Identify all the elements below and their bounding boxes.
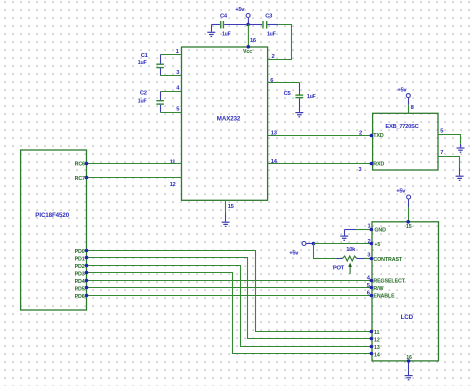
wire MAX232 pin 1 stub bbox=[161, 54, 182, 56]
svg-text:C1: C1 bbox=[141, 53, 149, 59]
node junction LCD pin 11 bbox=[370, 330, 374, 334]
wire PD2 to LCD pin 13 bbox=[87, 266, 372, 347]
node junction LCD pin 12 bbox=[370, 337, 374, 341]
svg-text:1uF: 1uF bbox=[307, 94, 316, 100]
capacitor C3 bbox=[249, 14, 279, 38]
svg-text:15: 15 bbox=[406, 224, 412, 230]
ground at EXB pin 5 bbox=[457, 144, 465, 152]
svg-text:LCD: LCD bbox=[401, 314, 414, 321]
node junction PD2 bbox=[85, 264, 89, 268]
wire POT to LCD pin 3 CONTRAST bbox=[364, 258, 371, 260]
wire EXB pin 5 to ground bbox=[438, 135, 461, 144]
wire PD3 to LCD pin 14 bbox=[87, 273, 372, 354]
svg-text:14: 14 bbox=[374, 353, 380, 359]
node junction LCD pin 4 bbox=[370, 279, 374, 283]
svg-text:ENABLE: ENABLE bbox=[373, 294, 395, 300]
wire MAX232 pin 6 stub bbox=[268, 82, 300, 84]
wire LCD pin 16 to ground bbox=[408, 361, 410, 375]
wire MAX232 pin 14 to EXB RXD bbox=[268, 163, 372, 165]
wire MAX232 pin 5 stub bbox=[161, 112, 182, 114]
svg-text:+5v: +5v bbox=[396, 189, 406, 195]
svg-text:11: 11 bbox=[374, 330, 380, 336]
capacitor C4 bbox=[220, 14, 248, 38]
IC U1 MAX232 box bbox=[182, 47, 268, 200]
svg-text:PD3: PD3 bbox=[75, 272, 85, 278]
svg-text:+5: +5 bbox=[374, 242, 380, 248]
wire MAX232 pin 3 stub bbox=[160, 75, 181, 77]
svg-text:C4: C4 bbox=[220, 14, 228, 20]
svg-text:R/W: R/W bbox=[373, 286, 383, 292]
node junction LCD pin 3 bbox=[370, 257, 374, 261]
node junction top rail bbox=[246, 23, 250, 27]
svg-text:12: 12 bbox=[374, 338, 380, 344]
svg-text:MAX232: MAX232 bbox=[217, 116, 241, 123]
svg-text:RC7: RC7 bbox=[75, 176, 85, 182]
svg-text:13: 13 bbox=[374, 345, 380, 351]
ground at C5 bbox=[295, 113, 303, 117]
wire top rail horizontal bbox=[212, 24, 220, 26]
wire +5V down to POT bbox=[314, 244, 337, 259]
wire RC6 to MAX232 pin 11 bbox=[87, 163, 182, 165]
svg-text:PD2: PD2 bbox=[75, 264, 85, 270]
node junction TXD bbox=[370, 134, 374, 138]
svg-text:12: 12 bbox=[170, 182, 176, 188]
svg-text:1uF: 1uF bbox=[138, 60, 147, 66]
resistor POT 10k bbox=[333, 247, 364, 271]
capacitor C2 bbox=[138, 90, 164, 112]
IC U2 PIC18F4520 box bbox=[21, 150, 87, 310]
node junction POT rail bbox=[312, 242, 316, 246]
POT wiper arrow bbox=[348, 263, 352, 275]
wire MAX232 pin 13 to EXB TXD bbox=[268, 135, 372, 137]
svg-text:PD0: PD0 bbox=[75, 249, 85, 255]
wire PD6 to LCD pin 6 bbox=[87, 295, 372, 297]
node junction LCD pin 15 bbox=[406, 220, 410, 224]
node junction LCD pin 2 bbox=[370, 242, 374, 246]
wire PD1 to LCD pin 12 bbox=[87, 258, 372, 339]
svg-text:C2: C2 bbox=[140, 90, 147, 96]
wire C3 to MAX232 pin 2 bbox=[268, 25, 292, 60]
power +5V at EXB pin 8 bbox=[397, 88, 410, 105]
capacitor C1 bbox=[138, 53, 164, 76]
node junction PD4 bbox=[85, 279, 89, 283]
node junction LCD pin 16 bbox=[407, 359, 411, 363]
node junction RC6 bbox=[85, 162, 89, 166]
wire PD0 to LCD pin 11 bbox=[87, 251, 372, 332]
svg-text:1uF: 1uF bbox=[267, 32, 276, 38]
svg-text:EXB_7720SC: EXB_7720SC bbox=[385, 124, 419, 130]
svg-text:CONTRAST: CONTRAST bbox=[373, 257, 402, 263]
node junction LCD pin 5 bbox=[370, 286, 374, 290]
node junction LCD pin 1 bbox=[370, 228, 374, 232]
svg-text:1uF: 1uF bbox=[138, 99, 147, 105]
wire +5V rail to MAX232 pin 16 bbox=[247, 25, 249, 48]
wire RC7 to MAX232 pin 12 bbox=[87, 177, 182, 179]
svg-text:C5: C5 bbox=[284, 91, 292, 97]
node junction LCD pin 14 bbox=[370, 352, 374, 356]
svg-text:PD1: PD1 bbox=[75, 257, 85, 263]
svg-text:POT: POT bbox=[333, 265, 345, 271]
node junction MAX232 pin 16 bbox=[247, 45, 251, 49]
svg-text:C3: C3 bbox=[265, 14, 273, 20]
svg-text:+5v: +5v bbox=[289, 250, 299, 256]
node junction LCD pin 13 bbox=[370, 345, 374, 349]
IC U3 EXB_77205C box bbox=[373, 113, 438, 170]
node junction RXD bbox=[370, 162, 374, 166]
power +5V at POT rail bbox=[289, 242, 312, 257]
node junction RC7 bbox=[85, 176, 89, 180]
wire PD4 to LCD pin 4 bbox=[87, 280, 372, 282]
ground at MAX232 pin 15 bbox=[222, 214, 230, 227]
wire EXB pin 8 stub bbox=[408, 105, 410, 114]
svg-text:PIC18F4520: PIC18F4520 bbox=[35, 212, 69, 219]
svg-text:REGSELECT: REGSELECT bbox=[373, 279, 405, 285]
capacitor C5 bbox=[284, 83, 316, 112]
svg-text:10k: 10k bbox=[346, 247, 356, 253]
svg-text:GND: GND bbox=[374, 228, 386, 234]
wire MAX232 pin 15 bbox=[225, 200, 227, 213]
ground at EXB pin 7 bbox=[456, 168, 464, 180]
wire LCD pin 1 GND bbox=[345, 230, 372, 236]
svg-text:PD6: PD6 bbox=[75, 294, 85, 300]
node junction PD6 bbox=[85, 294, 89, 298]
svg-text:RC6: RC6 bbox=[75, 162, 85, 168]
wire MAX232 pin 4 stub bbox=[161, 91, 182, 93]
power +5V at LCD pin 15 bbox=[396, 189, 410, 207]
ground at LCD pin 16 bbox=[405, 376, 413, 380]
node junction LCD pin 6 bbox=[370, 294, 374, 298]
ground at LCD pin 1 bbox=[340, 236, 348, 240]
svg-text:Vcc: Vcc bbox=[243, 49, 252, 55]
svg-text:PD5: PD5 bbox=[75, 287, 85, 293]
svg-text:RXD: RXD bbox=[373, 162, 384, 168]
node junction PD1 bbox=[85, 256, 89, 260]
wire EXB pin 7 to ground bbox=[438, 157, 460, 169]
power +5V top rail bbox=[235, 7, 250, 25]
IC U4 LCD box bbox=[372, 222, 439, 361]
wire +5V to LCD pin 2 bbox=[314, 243, 372, 245]
svg-text:7: 7 bbox=[440, 150, 443, 156]
svg-text:PD4: PD4 bbox=[75, 279, 85, 285]
ground at C4 bbox=[207, 25, 215, 37]
svg-text:+5v: +5v bbox=[397, 88, 407, 94]
node junction PD0 bbox=[85, 249, 89, 253]
wire LCD pin 15 stub bbox=[408, 207, 410, 222]
wire PD5 to LCD pin 5 bbox=[87, 287, 372, 289]
node junction PD3 bbox=[85, 271, 89, 275]
svg-text:+5v: +5v bbox=[235, 7, 245, 13]
node junction PD5 bbox=[85, 286, 89, 290]
svg-text:1uF: 1uF bbox=[222, 32, 231, 38]
svg-text:TXD: TXD bbox=[373, 133, 384, 139]
